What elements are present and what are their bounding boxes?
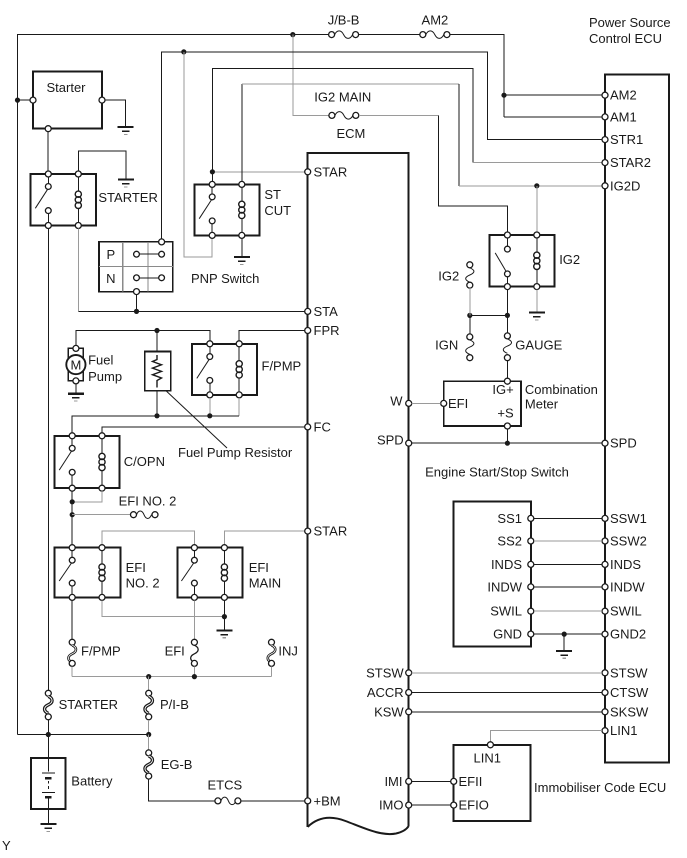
pin IG2 top-left xyxy=(504,232,510,238)
pin ECU IG2D xyxy=(602,178,640,193)
wire GND to ground xyxy=(563,634,565,650)
pin meter EFI xyxy=(441,400,447,406)
pin ST CUT bottom-right xyxy=(239,232,245,238)
wire IG2 MAIN feed (gray) xyxy=(293,35,329,116)
pin STARTER relay top-right xyxy=(75,171,81,177)
pin ST CUT top-left xyxy=(209,181,215,187)
svg-text:F/PMP: F/PMP xyxy=(262,358,302,373)
pin switch INDS xyxy=(491,557,534,572)
wire EFI MAIN contact down to EFI fuse (gray) xyxy=(193,600,195,639)
svg-text:LIN1: LIN1 xyxy=(610,723,637,738)
relay IG2 xyxy=(490,235,580,287)
pin ECM KSW xyxy=(374,704,412,719)
svg-text:Control ECU: Control ECU xyxy=(589,31,662,46)
node junction C/OPN outputs xyxy=(70,499,75,504)
svg-text:SSW1: SSW1 xyxy=(610,511,647,526)
svg-text:AM2: AM2 xyxy=(422,13,449,28)
svg-text:SWIL: SWIL xyxy=(490,604,522,619)
resistor fuel pump resistor xyxy=(145,331,171,416)
ground ST CUT xyxy=(234,257,250,264)
contact STARTER relay xyxy=(35,177,51,223)
fuel pump motor xyxy=(66,345,122,384)
relay EFI MAIN xyxy=(177,548,281,598)
svg-text:GAUGE: GAUGE xyxy=(515,337,562,352)
pin IG2 bottom-right xyxy=(534,284,540,290)
node junction gauge rail left xyxy=(467,313,472,318)
pin F/PMP bottom-left xyxy=(207,392,213,398)
fusible link P/I-B xyxy=(145,690,189,720)
wire ST CUT coil to ground xyxy=(241,238,243,256)
svg-text:KSW: KSW xyxy=(374,704,404,719)
svg-text:EFI NO. 2: EFI NO. 2 xyxy=(119,493,177,508)
svg-text:STAR: STAR xyxy=(314,524,348,539)
wire IG2 coil to ground (gray) xyxy=(536,290,538,312)
pin meter +S xyxy=(504,423,510,429)
fusible link EG-B xyxy=(145,750,193,779)
pin ST CUT bottom-left xyxy=(209,232,215,238)
pin meter IG+ xyxy=(504,378,510,384)
wire STSW (gray) xyxy=(412,672,602,674)
svg-text:IG2 MAIN: IG2 MAIN xyxy=(314,90,371,105)
svg-text:Combination: Combination xyxy=(525,382,598,397)
node junction resistor bottom xyxy=(154,413,159,418)
svg-text:Pump: Pump xyxy=(88,369,122,384)
wire rail to P/I-B link (gray) xyxy=(148,677,150,691)
svg-text:Immobiliser Code ECU: Immobiliser Code ECU xyxy=(534,780,666,795)
svg-text:EG-B: EG-B xyxy=(161,757,193,772)
label leader fuel pump resistor xyxy=(166,391,227,448)
battery xyxy=(31,758,113,809)
wire ST CUT contact output jog (gray) xyxy=(184,52,212,257)
node junction EFI relays ground xyxy=(222,614,227,619)
node junction GND ground xyxy=(562,632,567,637)
wire W to EFI (gray) xyxy=(412,402,441,404)
node junction AM2/AM1 split xyxy=(501,93,506,98)
node junction STR1/ST CUT branch xyxy=(181,49,186,54)
svg-text:W: W xyxy=(390,394,403,409)
wire rail to GAUGE fuse xyxy=(506,315,508,333)
wire F/PMP link to rail (gray) xyxy=(71,666,73,676)
wire SS2 (gray) xyxy=(534,540,602,542)
svg-text:+BM: +BM xyxy=(314,793,341,808)
fuse AM2 xyxy=(420,13,450,39)
wire EG-B to ETCS fuse xyxy=(149,779,215,801)
PNP switch xyxy=(99,242,260,292)
pin ECM SPD xyxy=(377,433,412,448)
wire IMO to EFIO xyxy=(412,804,451,806)
wire battery to ground xyxy=(47,809,49,823)
pin ECM STSW xyxy=(366,665,412,680)
wire IG2 fuse to rail (gray) xyxy=(469,288,471,315)
svg-text:Meter: Meter xyxy=(525,397,559,412)
wire STA line xyxy=(78,310,304,312)
wire bottom distribution rail (gray) xyxy=(72,676,271,678)
pin switch INDW xyxy=(487,579,533,594)
wire starter right to ground xyxy=(105,100,126,126)
pin ECU STSW xyxy=(602,665,648,680)
wire starter bottom to STARTER relay xyxy=(47,132,49,171)
combination meter box xyxy=(444,381,598,426)
contact EFI MAIN xyxy=(181,551,197,595)
pin EFI MAIN top-left xyxy=(191,545,197,551)
svg-text:ECM: ECM xyxy=(336,126,365,141)
wire battery feed left frame vertical xyxy=(18,35,329,735)
node junction EG-B branch xyxy=(146,732,151,737)
wire IMI to EFII xyxy=(412,780,451,782)
svg-text:SS1: SS1 xyxy=(497,511,522,526)
svg-text:Engine Start/Stop Switch: Engine Start/Stop Switch xyxy=(425,465,569,480)
svg-text:NO. 2: NO. 2 xyxy=(126,576,160,591)
svg-text:STR1: STR1 xyxy=(610,132,643,147)
wire F/PMP bottom-left to rail (gray) xyxy=(209,398,211,416)
pin F/PMP top-left xyxy=(207,341,213,347)
pin ECM FPR xyxy=(305,323,340,338)
svg-text:STSW: STSW xyxy=(366,665,404,680)
svg-text:INDW: INDW xyxy=(487,579,522,594)
wire STAR to ST CUT (gray) xyxy=(212,171,304,173)
svg-text:C/OPN: C/OPN xyxy=(124,454,165,469)
svg-text:Power Source: Power Source xyxy=(589,15,671,30)
wire STARTER link to battery rail xyxy=(47,720,49,735)
pin switch SS1 xyxy=(497,511,533,526)
svg-text:ST: ST xyxy=(264,187,281,202)
pin starter left xyxy=(30,97,36,103)
svg-text:FC: FC xyxy=(314,419,331,434)
wire INDW xyxy=(534,586,602,588)
ground GND2 xyxy=(556,651,572,658)
contact F/PMP xyxy=(197,347,213,392)
svg-text:AM1: AM1 xyxy=(610,109,637,124)
wire GAUGE fuse to IG+ xyxy=(506,361,508,378)
pin F/PMP top-right xyxy=(236,341,242,347)
pin EFI NO.2 top-left xyxy=(69,545,75,551)
ground battery xyxy=(40,824,56,831)
pin ST CUT top-right xyxy=(239,181,245,187)
coil IG2 xyxy=(534,238,540,284)
svg-text:IGN: IGN xyxy=(435,337,458,352)
svg-text:EFI: EFI xyxy=(448,396,468,411)
pin ECM FC xyxy=(305,419,331,434)
node junction F/PMP contact bottom xyxy=(207,413,212,418)
wire rail to battery xyxy=(47,735,49,759)
wire EFI fuse to rail (gray) xyxy=(193,666,195,676)
pin ECM STA xyxy=(305,304,338,319)
pin ECU STAR2 xyxy=(602,155,651,170)
svg-text:IMO: IMO xyxy=(379,798,404,813)
wire INDS xyxy=(534,563,602,565)
wire FPR left segment to fuel pump and F/PMP contact xyxy=(76,331,210,346)
svg-text:SWIL: SWIL xyxy=(610,604,642,619)
pin starter right xyxy=(99,97,105,103)
wire STAR2 horizontal (gray) xyxy=(473,162,602,164)
svg-text:SSW2: SSW2 xyxy=(610,534,647,549)
relay F/PMP xyxy=(192,344,301,395)
svg-text:STARTER: STARTER xyxy=(98,190,157,205)
pin starter bottom xyxy=(45,126,51,132)
svg-text:GND2: GND2 xyxy=(610,627,646,642)
svg-text:Battery: Battery xyxy=(71,774,113,789)
node junction SPD/+S xyxy=(505,441,510,446)
svg-text:STARTER: STARTER xyxy=(59,697,118,712)
pin PNP top xyxy=(159,239,165,245)
coil STARTER relay xyxy=(75,177,81,223)
wire STAR lower segment B (gray) xyxy=(224,531,304,545)
relay ST CUT xyxy=(194,184,291,235)
svg-text:FPR: FPR xyxy=(314,323,340,338)
wire C/OPN bottom-left down xyxy=(71,491,73,545)
coil ST CUT xyxy=(239,187,245,232)
pin STARTER relay bottom-right xyxy=(75,223,81,229)
wire between J/B-B and AM2 fuse xyxy=(359,34,420,36)
wire STARTER relay contact down to fusible link xyxy=(47,229,49,691)
svg-text:INDW: INDW xyxy=(610,579,645,594)
svg-text:Y: Y xyxy=(2,838,11,853)
engine start/stop switch box xyxy=(454,502,531,647)
wire SPD line xyxy=(412,442,602,444)
pin ECU GND2 xyxy=(602,627,646,642)
pin ECU SSW2 xyxy=(602,534,647,549)
svg-text:STAR2: STAR2 xyxy=(610,155,651,170)
wire EFI MAIN coil bottom to ground xyxy=(223,600,225,629)
pin C/OPN bottom-right xyxy=(99,485,105,491)
fuse EFI NO. 2 xyxy=(119,493,177,518)
node junction rail P/I-B xyxy=(146,674,151,679)
wire C/OPN bottom-right jog (gray) xyxy=(72,491,102,502)
svg-text:ACCR: ACCR xyxy=(367,685,404,700)
wire STARTER relay coil bottom to STA (gray) xyxy=(77,229,79,312)
svg-text:INDS: INDS xyxy=(610,557,641,572)
svg-text:EFII: EFII xyxy=(459,774,483,789)
svg-text:GND: GND xyxy=(493,627,522,642)
svg-text:INDS: INDS xyxy=(491,557,522,572)
pin ECU SPD xyxy=(602,436,637,451)
svg-text:MAIN: MAIN xyxy=(249,576,282,591)
svg-text:Fuel: Fuel xyxy=(88,353,113,368)
wire gauge rail xyxy=(470,314,508,316)
wire IG2 MAIN fuse to IG2 relay contact xyxy=(359,114,439,116)
svg-text:SKSW: SKSW xyxy=(610,704,649,719)
fuse EFI xyxy=(165,639,199,666)
pin C/OPN bottom-left xyxy=(69,485,75,491)
svg-text:AM2: AM2 xyxy=(610,88,637,103)
pin ECU SKSW xyxy=(602,704,649,719)
pin EFI NO.2 top-right xyxy=(99,545,105,551)
ground STARTER relay xyxy=(118,180,134,187)
wire ACCR to CTSW xyxy=(412,692,602,694)
pin ECU AM2 xyxy=(602,88,637,103)
pin STARTER relay top-left xyxy=(45,171,51,177)
fuse J/B-B xyxy=(328,13,360,39)
pin EFI NO.2 bottom-right xyxy=(99,594,105,600)
wire PNP bottom to STA line xyxy=(136,295,138,312)
pin switch SS2 xyxy=(497,534,533,549)
wire ETCS to +BM pin xyxy=(241,800,305,802)
contact ST CUT xyxy=(199,187,215,232)
svg-text:SPD: SPD xyxy=(377,433,404,448)
svg-text:IMI: IMI xyxy=(384,774,402,789)
wire SWIL (gray) xyxy=(534,610,602,612)
pin EFI MAIN top-right xyxy=(221,545,227,551)
wire STARTER relay coil top to ground xyxy=(78,151,126,178)
svg-text:IG2: IG2 xyxy=(559,252,580,267)
svg-text:+S: +S xyxy=(497,406,514,421)
svg-text:P/I-B: P/I-B xyxy=(160,697,189,712)
relay EFI NO.2 xyxy=(54,548,159,598)
pin EFI NO.2 bottom-left xyxy=(69,594,75,600)
wire battery rail xyxy=(18,734,149,736)
wire P/I-B link to battery rail (gray) xyxy=(148,720,150,735)
relay C/OPN xyxy=(55,436,165,488)
svg-text:N: N xyxy=(106,271,115,286)
node junction gauge rail right xyxy=(505,313,510,318)
wire SS1 xyxy=(534,517,602,519)
svg-text:STSW: STSW xyxy=(610,665,648,680)
wire KSW to SKSW xyxy=(412,711,602,713)
wire AM2 fuse to AM2/AM1 pins xyxy=(450,35,504,117)
svg-text:F/PMP: F/PMP xyxy=(81,644,121,659)
fuse IGN (stub below) xyxy=(435,334,474,361)
svg-text:CTSW: CTSW xyxy=(610,685,649,700)
svg-text:IG2D: IG2D xyxy=(610,178,640,193)
svg-text:Starter: Starter xyxy=(47,80,87,95)
pin immobiliser EFIO xyxy=(451,798,489,813)
pin ECM STAR xyxy=(305,164,348,179)
node junction STA/PNP xyxy=(134,309,139,314)
power source control ECU box xyxy=(605,75,669,763)
fusible link F/PMP xyxy=(68,639,120,666)
fuse ETCS xyxy=(207,777,242,804)
wire IG2 contact output down xyxy=(506,290,508,316)
wire battery to starter xyxy=(18,99,31,101)
svg-text:CUT: CUT xyxy=(264,203,291,218)
contact EFI NO.2 xyxy=(59,551,75,595)
coil EFI MAIN xyxy=(221,551,227,595)
wire EFI NO.2 contact down to F/PMP link xyxy=(71,600,73,639)
wire INJ link to rail (gray) xyxy=(271,666,273,676)
wire PNP switch to STR1 xyxy=(161,52,602,239)
pin STARTER relay bottom-left xyxy=(45,223,51,229)
ECM box xyxy=(308,153,409,827)
pin ECU LIN1 xyxy=(602,723,637,738)
wire EFI NO.2 coil bottom jog to ground node (gray) xyxy=(102,600,224,616)
node junction EFI NO.2 fuse branch xyxy=(70,512,75,517)
svg-text:SS2: SS2 xyxy=(497,534,522,549)
pin switch GND xyxy=(493,627,534,642)
wire +S down to SPD line xyxy=(506,429,508,443)
pin ECM STAR lower xyxy=(305,524,348,539)
svg-text:EFIO: EFIO xyxy=(459,798,489,813)
wire IG2D route (gray) xyxy=(241,84,243,181)
wire F/PMP bottom-right to rail (gray) xyxy=(238,398,240,416)
svg-text:IG2: IG2 xyxy=(438,269,459,284)
pin IG2 top-right xyxy=(534,232,540,238)
pin ECM IMI xyxy=(384,774,411,789)
svg-text:Fuel Pump Resistor: Fuel Pump Resistor xyxy=(178,445,293,460)
fuse IG2 (stub above rail) xyxy=(438,262,474,288)
pin immobiliser EFII xyxy=(451,774,483,789)
node junction J/B-B branch xyxy=(290,32,295,37)
svg-text:STAR: STAR xyxy=(314,164,348,179)
svg-text:M: M xyxy=(70,357,81,372)
pin F/PMP bottom-right xyxy=(236,392,242,398)
wire STAR lower segment A (gray) xyxy=(102,531,194,545)
svg-text:STA: STA xyxy=(314,304,339,319)
pin ECU INDS xyxy=(602,557,641,572)
contact IG2 xyxy=(495,238,510,284)
wire rail to IGN fuse xyxy=(469,315,471,334)
pin EFI MAIN bottom-right xyxy=(221,594,227,600)
pin immobiliser LIN1 xyxy=(474,742,501,766)
pin ECM ACCR xyxy=(367,685,412,700)
svg-text:PNP Switch: PNP Switch xyxy=(191,271,259,286)
pin IG2 bottom-left xyxy=(504,284,510,290)
pin C/OPN top-right xyxy=(99,433,105,439)
ground EFI relays xyxy=(216,630,232,637)
pin ECM W xyxy=(390,394,411,409)
wire FC line to C/OPN coil xyxy=(102,427,305,433)
pin ECU STR1 xyxy=(602,132,643,147)
wire rail to EG-B link (gray) xyxy=(148,735,150,750)
contact C/OPN xyxy=(59,439,75,485)
wire LIN1 (gray) xyxy=(490,731,602,742)
wire STAR up and over to STAR2 xyxy=(212,69,473,172)
pin ECU CTSW xyxy=(602,685,649,700)
wire FPR pin to F/PMP coil xyxy=(239,331,305,341)
svg-text:LIN1: LIN1 xyxy=(474,751,501,766)
coil F/PMP xyxy=(236,347,242,392)
wire GND to GND2 xyxy=(534,633,602,635)
fuse IG2 MAIN xyxy=(314,90,371,120)
wire IG2D to IG2 coil (gray) xyxy=(536,186,538,232)
coil C/OPN xyxy=(99,439,105,485)
node junction IG2D coil branch xyxy=(534,183,539,188)
relay STARTER xyxy=(31,174,158,226)
starter motor box xyxy=(33,72,102,129)
svg-text:EFI: EFI xyxy=(165,644,185,659)
wire fuel pump to ground xyxy=(75,384,77,393)
pin switch SWIL xyxy=(490,604,534,619)
node junction fuel pump resistor top xyxy=(154,328,159,333)
pin EFI MAIN bottom-left xyxy=(191,594,197,600)
svg-text:J/B-B: J/B-B xyxy=(328,13,360,28)
svg-text:SPD: SPD xyxy=(610,436,637,451)
wire to EFI NO.2 fuse (gray) xyxy=(72,514,130,516)
pin PNP bottom xyxy=(134,289,140,295)
ground starter xyxy=(118,127,134,134)
pin ECU SWIL xyxy=(602,604,642,619)
svg-text:IG+: IG+ xyxy=(492,382,513,397)
fusible link INJ (stub) xyxy=(268,639,298,666)
pin ECM IMO xyxy=(379,798,412,813)
immobiliser code ECU box xyxy=(454,745,531,821)
ground IG2 coil xyxy=(529,313,545,320)
pin ECU AM1 xyxy=(602,109,637,124)
node junction starter feed xyxy=(15,98,20,103)
wire STAR branch down to ST CUT contact xyxy=(211,172,213,182)
node junction rail EFI fuse xyxy=(192,674,197,679)
node junction battery positive xyxy=(46,732,51,737)
pin C/OPN top-left xyxy=(69,433,75,439)
wire to AM1 pin xyxy=(504,116,602,118)
wire pump return rail xyxy=(72,416,239,433)
svg-text:ETCS: ETCS xyxy=(207,777,242,792)
svg-text:EFI: EFI xyxy=(126,560,146,575)
pin ECU INDW xyxy=(602,579,645,594)
pin ECM +BM xyxy=(305,793,341,808)
ground fuel pump xyxy=(68,394,84,401)
fuse GAUGE xyxy=(503,333,562,361)
pin ECU SSW1 xyxy=(602,511,647,526)
